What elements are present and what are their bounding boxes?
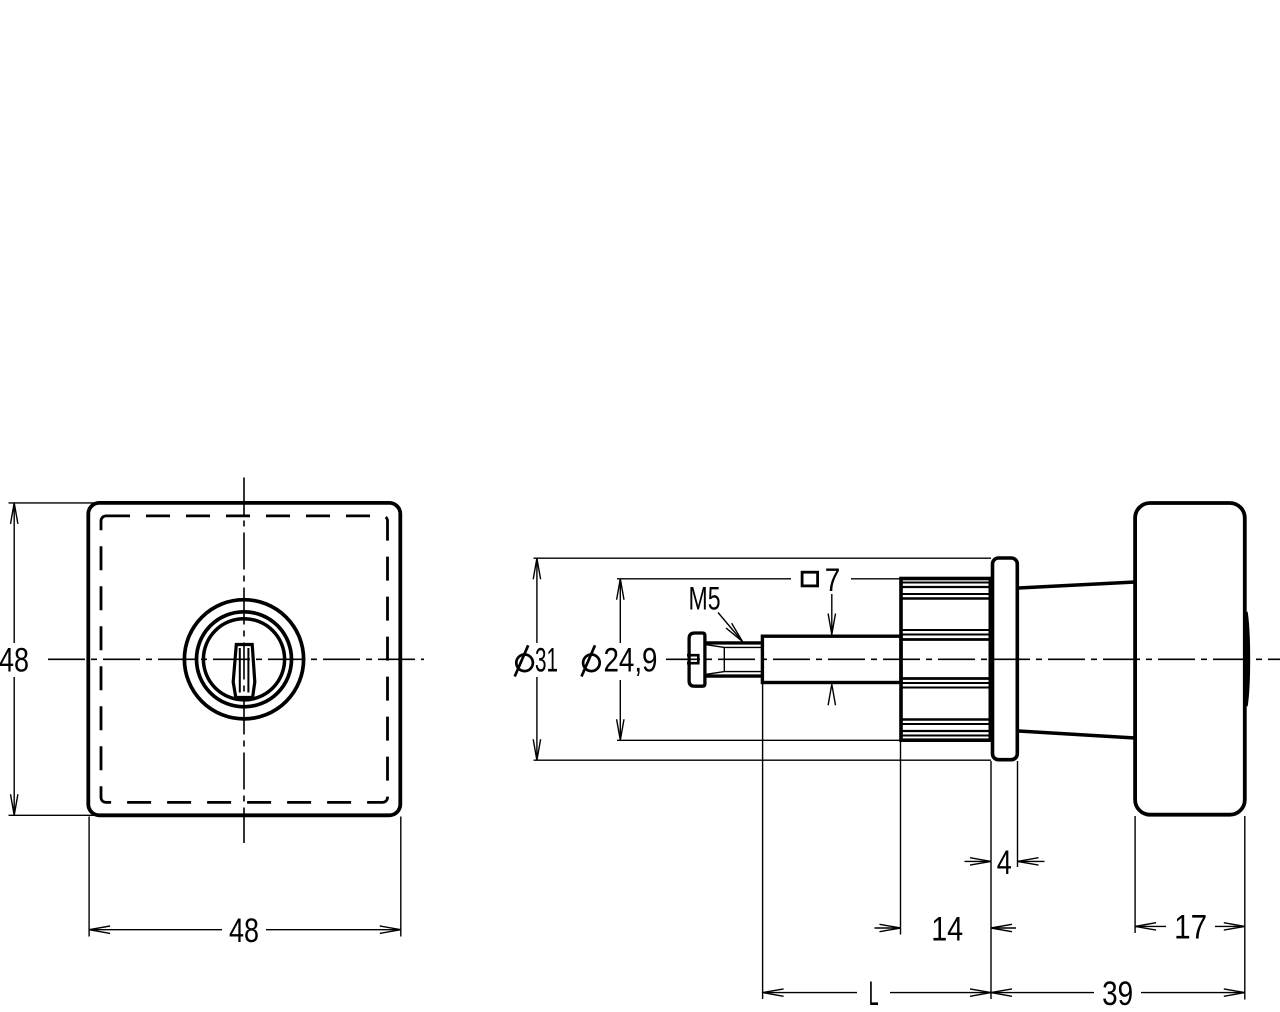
knurl line 11 <box>901 718 990 721</box>
arrowhead left dimL <box>763 989 784 996</box>
arrowhead left dim14 <box>991 924 1012 931</box>
svg-text:39: 39 <box>1102 975 1133 1012</box>
dimension line phi24.9 <box>619 579 621 741</box>
arrowhead left 48 width <box>89 926 110 933</box>
thread root bottom line <box>724 671 762 673</box>
keyway slot <box>233 645 255 698</box>
knurl line 5 <box>901 629 990 631</box>
extension line phi31 top <box>534 557 992 559</box>
arrowhead up square-7 bottom <box>828 684 835 705</box>
svg-text:31: 31 <box>535 642 558 680</box>
knurl line 1 <box>901 582 990 584</box>
arrowhead down square-7 top <box>828 614 835 635</box>
arrowhead up phi24.9 <box>617 579 624 600</box>
dimension 14 right tail with arrowhead <box>991 927 1016 929</box>
knurl line 13 <box>901 730 990 732</box>
arrowhead right 48 width <box>380 926 401 933</box>
square spindle shaft <box>762 636 901 682</box>
extension line top-left for 48 height <box>9 502 98 504</box>
extension line phi24.9 bottom <box>617 739 900 741</box>
white gap for phi24.9 text <box>576 643 666 680</box>
phi symbol of phi31 <box>516 655 533 672</box>
svg-text:4: 4 <box>997 844 1012 882</box>
extension line phi24.9 top (with gap for square-7 label) <box>617 578 791 580</box>
extension line left for 48 width <box>88 817 90 937</box>
extension line phi31 bottom <box>534 759 992 761</box>
screw M5 head <box>689 633 705 686</box>
svg-text:24,9: 24,9 <box>604 642 658 680</box>
dimension line phi31 <box>536 558 538 760</box>
extension line phi24.9 top right part <box>851 578 900 580</box>
extension line right for 48 width <box>400 817 402 937</box>
white gap for 48 height text <box>0 643 31 677</box>
dimension line 17 <box>1135 925 1245 927</box>
extension line knurl left (for 14) <box>900 741 902 935</box>
dimension 14 left tail with arrowhead <box>875 927 901 929</box>
cylinder middle circle <box>197 612 292 707</box>
white gap for 17 text <box>1166 912 1215 941</box>
cylinder outer circle <box>184 600 303 719</box>
horizontal centerline of side view <box>663 658 1280 660</box>
arrowhead left dim39 <box>991 989 1012 996</box>
knurl line 9 <box>901 682 990 684</box>
arrowhead left dim4 <box>1018 858 1039 865</box>
arrowhead up 48 height <box>11 503 18 524</box>
arrowhead right dim14 <box>880 924 901 931</box>
extension line flange left (shared by 4, 14, L, 39) <box>990 761 992 999</box>
arrowhead right dim39 <box>1224 989 1245 996</box>
arrowhead right dim4 <box>970 858 991 865</box>
extension line bottom-left for 48 height <box>9 814 98 816</box>
knurl line 6 <box>901 634 990 636</box>
knurl line 3 <box>901 593 990 595</box>
dimension 4 right tail with arrowhead <box>1018 860 1045 862</box>
leader arrowhead M5 <box>726 623 743 641</box>
dimension line 48 height <box>13 503 15 815</box>
arrowhead down phi24.9 <box>617 719 624 740</box>
dashed inner outline of plate <box>101 516 388 803</box>
neck cone bottom line <box>1019 731 1136 738</box>
white gap for L text <box>857 978 890 1007</box>
svg-text:48: 48 <box>0 642 29 680</box>
knurl line 14 <box>901 735 990 737</box>
dimension line 39 <box>991 992 1245 994</box>
knurled bushing body <box>901 579 990 741</box>
keyway inner wall left <box>239 648 241 693</box>
arrowhead up phi31 <box>533 558 540 579</box>
rose flange <box>993 558 1018 760</box>
arrowhead down 48 height <box>11 794 18 815</box>
white gap for 48 width text <box>222 914 266 945</box>
screw thread crest bottom line <box>705 674 763 677</box>
square symbol of square-7 label <box>802 572 818 586</box>
extension line knob left (for 17) <box>1134 816 1136 933</box>
svg-text:48: 48 <box>229 912 259 950</box>
keyway inner wall right <box>247 648 249 693</box>
white gap for 39 text <box>1094 978 1141 1007</box>
knurl line 4 <box>901 597 990 600</box>
neck cone top line <box>1019 582 1136 588</box>
arrowhead down phi31 <box>533 739 540 760</box>
screw neck diagonal top <box>706 645 725 648</box>
extension line knob right (for 17 and 39) <box>1244 816 1246 1000</box>
cylinder inner circle <box>203 619 284 700</box>
arrowhead left dim17 <box>1135 923 1156 930</box>
screw thread crest top line <box>705 641 763 644</box>
arrowhead right dimL <box>970 989 991 996</box>
thread run-out vertical <box>723 647 725 671</box>
extension line shaft left (for L) <box>762 684 764 1000</box>
screw slot notch <box>687 655 698 663</box>
vertical centerline of front view <box>243 478 245 844</box>
dimension 4 left tail with arrowhead <box>965 860 992 862</box>
svg-text:L: L <box>869 975 879 1012</box>
front plate outline (48x48 rounded square) <box>88 503 400 815</box>
thread root top line <box>724 646 762 648</box>
knurl line 7 <box>901 638 990 641</box>
knurl line 2 <box>901 586 990 588</box>
white gap for phi31 text <box>508 643 563 677</box>
knurl line 8 <box>901 677 990 680</box>
dimension line L <box>763 992 991 994</box>
horizontal centerline of front view <box>48 658 424 660</box>
knurl line 12 <box>901 723 990 725</box>
extension line flange right (for 4) <box>1017 761 1019 867</box>
phi symbol of phi24,9 <box>583 655 600 672</box>
knob body <box>1135 503 1245 815</box>
svg-text:7: 7 <box>825 562 841 598</box>
knob face arc <box>1245 612 1247 706</box>
arrowhead right dim17 <box>1224 923 1245 930</box>
svg-text:14: 14 <box>931 910 963 948</box>
screw neck diagonal bottom <box>706 672 725 675</box>
leader line M5 <box>718 613 743 642</box>
dimension line 48 width <box>89 929 401 931</box>
svg-text:17: 17 <box>1174 909 1207 947</box>
dimension line square-7 top <box>831 594 833 635</box>
svg-text:M5: M5 <box>689 580 721 616</box>
knurl line 10 <box>901 687 990 689</box>
